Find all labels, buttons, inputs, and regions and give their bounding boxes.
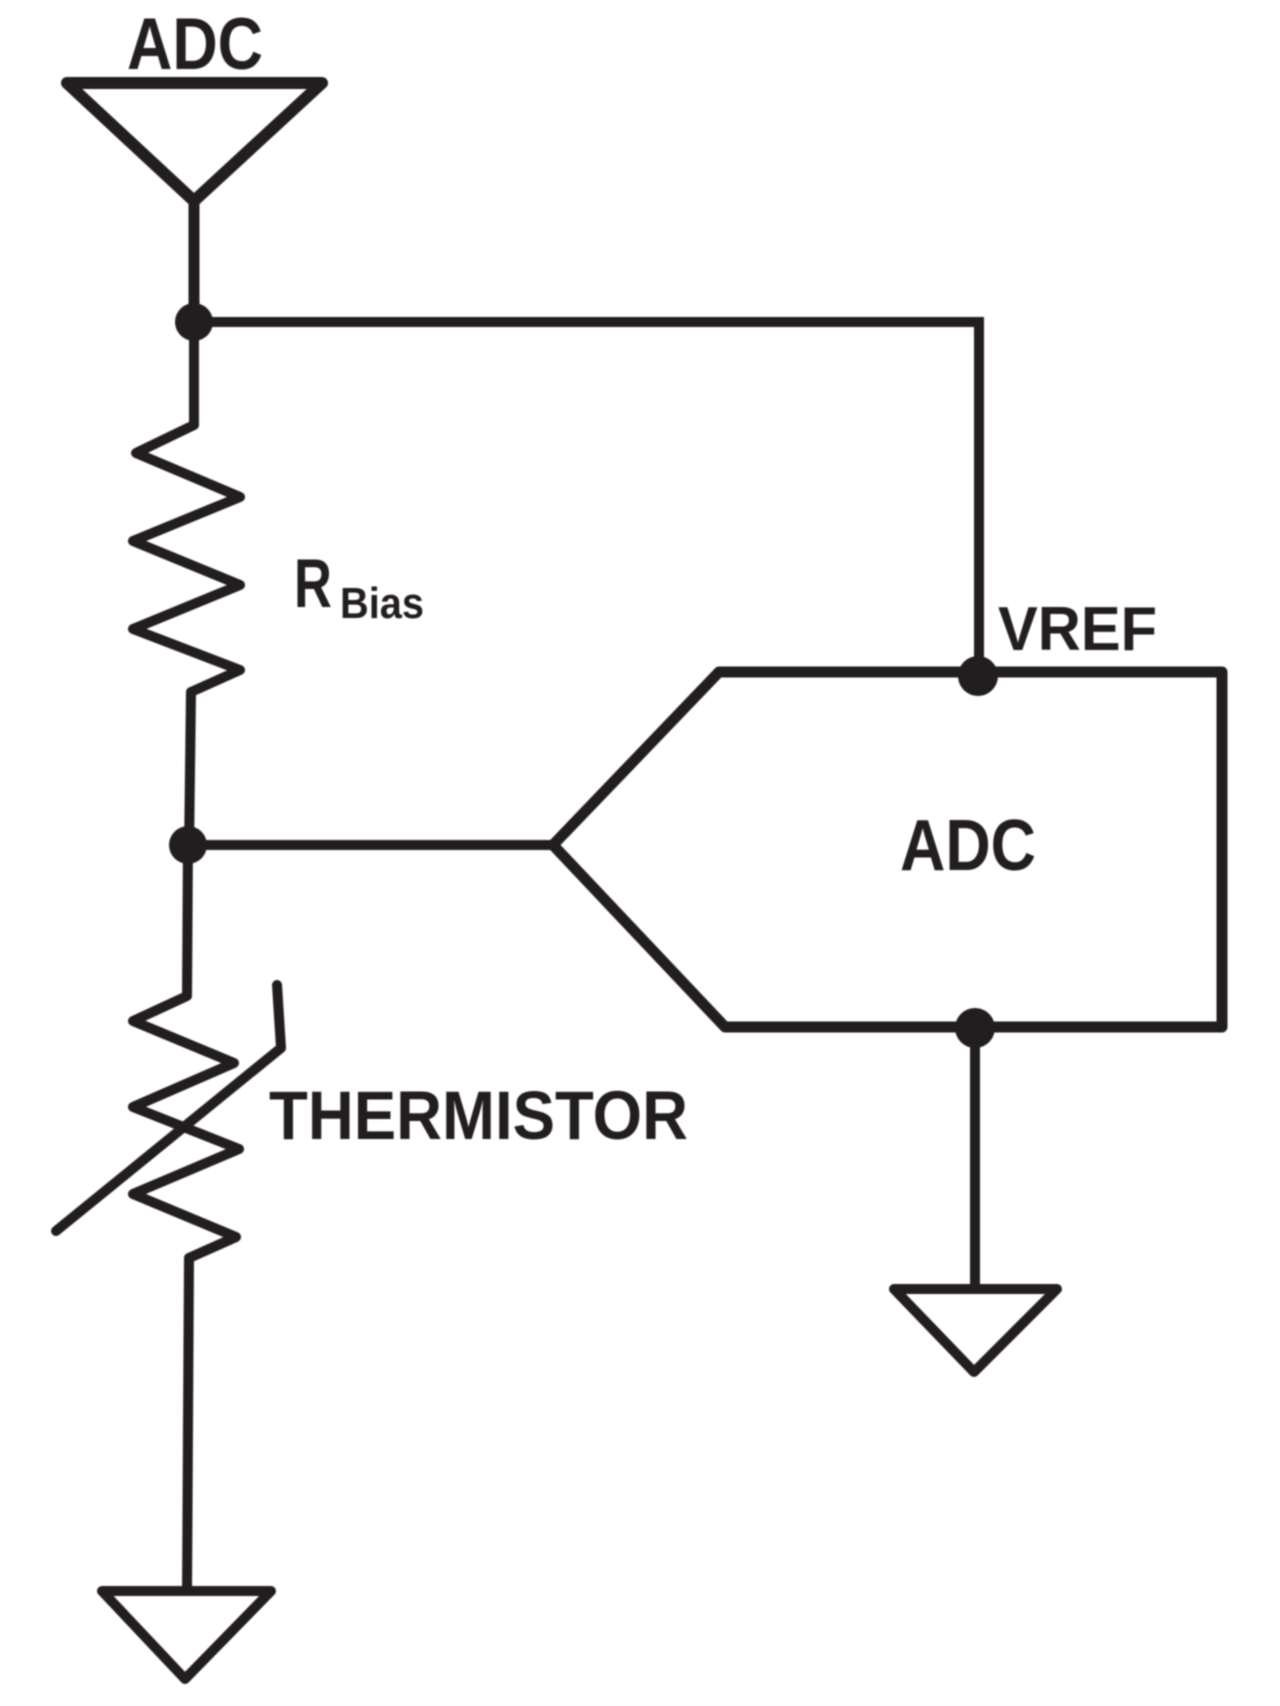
svg-text:VREF: VREF [998,595,1157,664]
svg-text:THERMISTOR: THERMISTOR [269,1077,688,1154]
svg-text:Bias: Bias [340,579,424,628]
svg-text:R: R [294,545,332,622]
svg-text:ADC: ADC [127,4,263,85]
svg-text:ADC: ADC [900,806,1036,886]
